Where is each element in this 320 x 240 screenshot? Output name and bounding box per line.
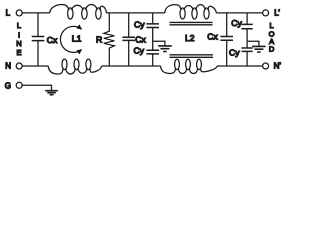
capacitor Cy upper-left (152, 13, 154, 50)
wire bottom N rail (23, 65, 263, 67)
svg-text:L2: L2 (185, 33, 195, 43)
wire G terminal to earth (23, 85, 52, 90)
wire top L rail (22, 12, 262, 14)
svg-text:L1: L1 (72, 34, 82, 44)
L2 core bars (170, 22, 214, 57)
svg-text:Cy: Cy (134, 19, 145, 29)
terminal N (16, 63, 22, 69)
terminal G (16, 82, 22, 88)
svg-text:L: L (17, 21, 21, 30)
svg-text:Cy: Cy (231, 18, 242, 28)
svg-text:L’: L’ (274, 8, 280, 17)
svg-text:Cy: Cy (134, 46, 145, 56)
svg-text:N’: N’ (274, 62, 282, 71)
capacitor Cy lower-left (146, 50, 159, 54)
svg-text:Cx: Cx (47, 35, 58, 45)
inductor L2 bottom winding (161, 59, 218, 73)
svg-text:D: D (269, 44, 275, 53)
capacitor Cx2 (128, 13, 130, 66)
svg-text:N: N (5, 62, 11, 71)
ground earth G (45, 91, 58, 95)
svg-text:Cx: Cx (135, 35, 146, 45)
ground mid-left (153, 41, 165, 46)
terminal L (16, 10, 22, 16)
svg-text:Cx: Cx (207, 32, 218, 42)
capacitor Cy upper-right (246, 13, 248, 48)
svg-text:R: R (96, 34, 102, 44)
svg-text:Cy: Cy (229, 48, 240, 58)
svg-text:N: N (16, 39, 21, 48)
resistor R (104, 13, 115, 66)
svg-text:G: G (5, 81, 11, 90)
inductor L1 bottom winding (48, 59, 101, 74)
inductor L1 top winding (50, 5, 107, 20)
capacitor Cx3 (226, 13, 228, 66)
capacitor Cx1 (37, 13, 39, 66)
capacitor Cy lower-right (242, 48, 253, 51)
inductor L2 top winding (165, 5, 217, 19)
terminal L' (263, 10, 269, 16)
svg-text:L: L (6, 8, 11, 17)
svg-text:E: E (16, 48, 21, 57)
ground mid-right (247, 41, 259, 46)
L1 circulating-current arrow (60, 26, 81, 52)
terminal N' (263, 63, 269, 69)
